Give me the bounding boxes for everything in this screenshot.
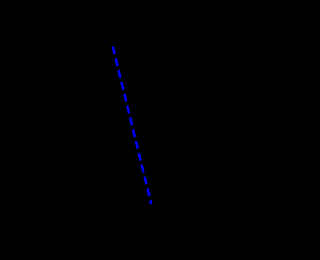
wire xyxy=(113,47,152,205)
